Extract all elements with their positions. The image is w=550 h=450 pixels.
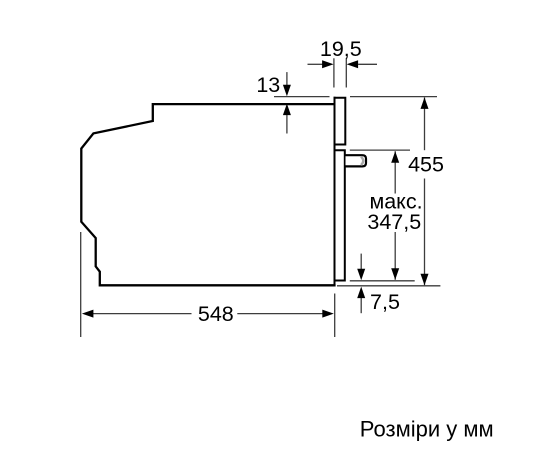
door hinge knob <box>346 155 367 166</box>
front frame lower column <box>334 150 345 280</box>
front frame upper column <box>334 98 346 145</box>
svg-text:Розміри у мм: Розміри у мм <box>360 417 494 442</box>
dimension 548 line right segment with arrow <box>237 313 322 315</box>
dimension 7,5 up arrow <box>360 297 362 313</box>
dimension 13 up arrow <box>286 114 288 134</box>
dimension 13 down arrow <box>286 72 288 86</box>
dimension 347,5 vertical line upper segment with up arrow <box>394 151 396 193</box>
svg-text:7,5: 7,5 <box>370 290 400 314</box>
reference line at door top (455/347.5 upper datum) <box>350 149 410 151</box>
dimension 19,5 right line and arrow <box>358 63 377 65</box>
dimension 455 vertical line lower segment <box>424 179 426 286</box>
extension line 19,5 right <box>345 58 347 87</box>
extension line 19,5 left <box>333 58 335 87</box>
reference line body bottom <box>337 285 440 287</box>
top reference line right part <box>350 96 437 98</box>
dimension 455 vertical line upper segment <box>424 97 426 150</box>
dimension 19,5 left line and arrow <box>308 63 323 65</box>
svg-text:455: 455 <box>408 153 444 177</box>
top reference line left part <box>274 96 330 98</box>
dimension 347,5 vertical line lower segment with down arrow <box>394 232 396 280</box>
dimension 7,5 down arrow <box>360 254 362 270</box>
extension line 548 right <box>334 294 336 338</box>
dimension 548 line left segment with arrow <box>93 313 192 315</box>
svg-text:347,5: 347,5 <box>367 210 421 234</box>
svg-text:19,5: 19,5 <box>320 37 362 61</box>
oven body outline <box>81 104 335 285</box>
svg-text:13: 13 <box>256 73 280 97</box>
hinge knob shading <box>361 157 363 165</box>
reference line door bottom <box>350 280 415 282</box>
svg-text:548: 548 <box>198 302 234 326</box>
front face vertical line <box>334 97 336 285</box>
extension line 548 left <box>80 232 82 337</box>
